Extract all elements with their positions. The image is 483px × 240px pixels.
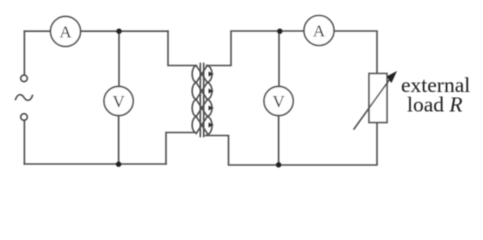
svg-text:A: A [313,22,326,41]
svg-text:A: A [59,23,72,42]
svg-text:load R: load R [407,93,463,117]
svg-text:V: V [272,92,285,111]
svg-text:V: V [112,92,125,111]
